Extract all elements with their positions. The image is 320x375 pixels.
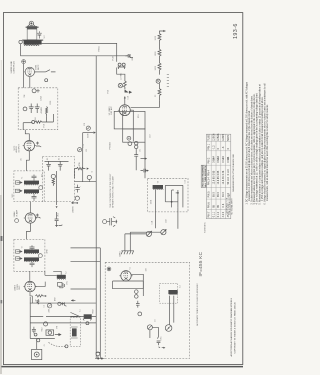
T2 cap top bbox=[30, 245, 35, 249]
svg-text:PLUG: PLUG bbox=[112, 55, 114, 61]
svg-text:0 46: 0 46 bbox=[222, 170, 225, 175]
AVC coupling caps bbox=[55, 212, 59, 224]
converter tube V1 12BE6 bbox=[23, 281, 36, 291]
svg-text:470K: 470K bbox=[79, 161, 81, 166]
wire heater string top with arrow bbox=[160, 31, 166, 34]
dashed link to ground bbox=[49, 343, 66, 347]
series cap marks bbox=[157, 341, 161, 345]
svg-text:IF AMP: IF AMP bbox=[15, 209, 18, 216]
svg-text:4. Line voltage maintained at: 4. Line voltage maintained at 117 volts … bbox=[256, 92, 259, 204]
svg-text:J1: J1 bbox=[44, 345, 46, 347]
loop antenna trimmer block bbox=[84, 315, 91, 319]
resistor R3 vertical bbox=[37, 299, 39, 304]
wire speaker return bbox=[21, 44, 126, 56]
wire 12AT6 plate up bbox=[124, 96, 126, 104]
chassis arrow upper bbox=[141, 157, 148, 159]
svg-text:measured in 1,000 ohms per vol: measured in 1,000 ohms per volt and take… bbox=[248, 110, 251, 201]
alignment star symbol bbox=[107, 267, 111, 271]
divider mesh box upper bbox=[114, 111, 145, 128]
B- bus vertical main bbox=[95, 56, 97, 359]
svg-text:C13: C13 bbox=[185, 180, 187, 183]
arrow chassis left low bbox=[71, 299, 75, 301]
svg-text:L3: L3 bbox=[179, 285, 181, 287]
svg-text:R8: R8 bbox=[84, 123, 86, 125]
wire jack feed bbox=[36, 339, 38, 350]
alternate osc coil dashed box bbox=[160, 283, 178, 303]
svg-text:C19: C19 bbox=[149, 135, 151, 138]
output transformer T3 winding (laminated core) bbox=[24, 40, 42, 44]
grid terminal circle bbox=[15, 219, 19, 223]
resistor R15 vertical bbox=[52, 179, 54, 186]
svg-text:46 0: 46 0 bbox=[222, 192, 225, 197]
wire T2 to converter bbox=[29, 271, 31, 281]
interlock connector M1 bbox=[125, 54, 133, 58]
T2 secondary winding bbox=[24, 257, 39, 262]
svg-text:PIN 1: PIN 1 bbox=[208, 143, 211, 150]
resistor R18 horizontal bbox=[35, 121, 53, 123]
svg-text:V.C.: V.C. bbox=[44, 34, 46, 38]
AVC bus vertical secondary bbox=[99, 248, 101, 359]
resistor R9 horizontal bbox=[75, 167, 86, 178]
svg-text:C26A: C26A bbox=[40, 96, 43, 101]
svg-text:193-6: 193-6 bbox=[233, 23, 239, 39]
svg-text:.05: .05 bbox=[47, 158, 49, 161]
jack terminal circles bbox=[127, 136, 131, 140]
svg-text:6. Voltage should be measured: 6. Voltage should be measured, no signal… bbox=[264, 83, 267, 204]
svg-text:C18: C18 bbox=[128, 96, 130, 99]
output transformer T3 frame bbox=[27, 26, 37, 39]
coupling cap C15 bbox=[78, 148, 82, 152]
dial lamp tick marks bbox=[167, 75, 169, 87]
wire mesh to detector box bbox=[144, 142, 146, 178]
svg-text:20MFD: 20MFD bbox=[72, 206, 74, 213]
2nd IF transformer T2 dashed box bbox=[14, 239, 45, 271]
AVC line lower bbox=[30, 322, 96, 324]
trimmer link wires bbox=[150, 327, 159, 338]
svg-text:.05: .05 bbox=[21, 158, 23, 161]
svg-text:12AT6: 12AT6 bbox=[222, 133, 225, 141]
resistor R22 bbox=[158, 49, 161, 63]
T2 primary winding bbox=[24, 249, 39, 254]
svg-text:50 110: 50 110 bbox=[227, 177, 230, 185]
wire loop below tube bbox=[113, 281, 144, 289]
tuning gang C1B variable capacitor bbox=[125, 230, 166, 235]
oscillator coil L2 winding bbox=[57, 275, 66, 280]
antenna coupling symbols bbox=[58, 302, 61, 305]
svg-text:455: 455 bbox=[42, 174, 44, 177]
converter grid resistor R2 bbox=[35, 295, 44, 297]
svg-text:-1.2: -1.2 bbox=[212, 145, 215, 150]
wire converter cathode bbox=[30, 292, 32, 303]
electrolytic C26A bbox=[29, 104, 34, 114]
wire to heater string bbox=[125, 90, 131, 94]
svg-text:47: 47 bbox=[35, 299, 37, 301]
volume control branch vertical bbox=[82, 133, 84, 182]
wires to chassis mount comb bbox=[125, 232, 130, 251]
svg-text:R18: R18 bbox=[44, 124, 46, 127]
svg-text:TUBE: TUBE bbox=[208, 134, 211, 141]
gang link wires bbox=[125, 232, 161, 234]
AVC feed wire bbox=[74, 181, 96, 183]
svg-text:A MOTOROLA CHASSIS SCHEMATI: A MOTOROLA CHASSIS SCHEMATIC DIAGRAM MOD… bbox=[230, 297, 233, 356]
svg-text:SEC: SEC bbox=[12, 193, 14, 198]
svg-text:150: 150 bbox=[35, 117, 37, 120]
svg-text:C3: C3 bbox=[154, 320, 156, 322]
AVC bus vertical bbox=[56, 171, 58, 205]
audio output tube V4 50C5 bbox=[23, 141, 36, 151]
svg-text:CORD PLUG: CORD PLUG bbox=[13, 61, 15, 74]
screen bypass cap C12 bbox=[36, 214, 41, 219]
svg-text:470K: 470K bbox=[46, 248, 48, 253]
volume control R8 bbox=[86, 126, 90, 130]
padder trimmer circle bbox=[47, 304, 51, 308]
tuning gang C1A variable capacitor bbox=[146, 231, 151, 236]
T1 trimmer top bbox=[16, 181, 23, 184]
T2 trimmer bottom bbox=[16, 257, 23, 260]
svg-text:0 .6: 0 .6 bbox=[222, 203, 225, 208]
svg-text:PIN 5: PIN 5 bbox=[208, 191, 211, 198]
svg-text:PIN 3 4: PIN 3 4 bbox=[208, 177, 211, 186]
svg-text:85 0: 85 0 bbox=[217, 192, 220, 197]
page left edge shadow bbox=[0, 195, 2, 374]
svg-text:117VAC: 117VAC bbox=[120, 72, 123, 80]
tube voltage table bbox=[206, 134, 231, 219]
alternate trimmer CT2 bbox=[165, 325, 172, 332]
T2 trimmer top bbox=[16, 250, 23, 253]
wire filter bottom drop bbox=[22, 123, 24, 130]
electrolytic cap C16 with polarity bbox=[75, 185, 79, 193]
svg-text:C2: C2 bbox=[44, 305, 46, 307]
detector transformer dashed box bbox=[148, 178, 188, 212]
capacitor C22 bbox=[58, 161, 63, 170]
phono switch box bbox=[46, 330, 54, 335]
wire rectifier cathode bbox=[29, 77, 31, 88]
svg-text:12.6 46: 12.6 46 bbox=[222, 176, 225, 185]
wire bottom bbox=[30, 338, 55, 340]
junction dots on dashed bus bbox=[97, 358, 99, 360]
T1 cap top bbox=[32, 175, 37, 181]
chassis mount comb feet bbox=[121, 251, 134, 254]
wire volume tap bbox=[83, 132, 94, 134]
AC plug P1 bbox=[118, 63, 121, 66]
heater wire row 1 bbox=[71, 247, 101, 249]
coupling cap with arrow bbox=[141, 169, 149, 173]
B+ decoupling dashed box bbox=[42, 157, 74, 202]
svg-text:L1: L1 bbox=[80, 309, 82, 311]
wire rectifier plate bbox=[35, 71, 46, 73]
svg-text:PIN 4: PIN 4 bbox=[208, 169, 211, 176]
phono jack J1 box bbox=[32, 349, 42, 359]
svg-text:3. Measured values are from s: 3. Measured values are from socket pin t… bbox=[253, 93, 256, 204]
svg-text:RECT.: RECT. bbox=[38, 64, 40, 70]
arrow to chassis left bbox=[72, 202, 77, 204]
svg-text:0 85: 0 85 bbox=[212, 170, 215, 175]
svg-text:12BE6: 12BE6 bbox=[212, 133, 215, 141]
svg-text:APPEARS IN PHOTOFACT FOLDER: APPEARS IN PHOTOFACT FOLDER bbox=[112, 176, 115, 208]
svg-text:PIN 6: PIN 6 bbox=[208, 202, 211, 209]
IF amplifier tube V2 12BA6 bbox=[24, 213, 37, 223]
scan speck marks on left edge bbox=[0, 236, 2, 241]
loop antenna lead diagonals bbox=[70, 312, 80, 316]
svg-text:measurements, with an isolatio: measurements, with an isolation transfor… bbox=[266, 104, 269, 201]
polarity cap bbox=[136, 301, 140, 308]
table cell digits bbox=[208, 133, 230, 218]
pilot lamp I2 bbox=[156, 79, 160, 83]
oscillator grid line bbox=[30, 315, 96, 317]
capacitor C30 bbox=[37, 32, 42, 34]
pilot terminal circle bbox=[23, 107, 27, 111]
loop antenna dashed box bbox=[70, 317, 80, 346]
resistor R24 bbox=[158, 83, 161, 100]
resistor R21 bbox=[158, 34, 161, 50]
T1 terminal circle bbox=[39, 186, 43, 190]
cathode resistor R17 bbox=[36, 142, 41, 147]
alternate trimmer CT1 bbox=[147, 325, 152, 330]
tone network cluster bbox=[103, 217, 118, 227]
capacitor C4 bbox=[32, 327, 36, 334]
scattered component value labels bbox=[12, 46, 186, 347]
svg-text:T1: T1 bbox=[21, 177, 23, 179]
svg-text:NO SIGNAL INPUT: NO SIGNAL INPUT bbox=[230, 197, 233, 214]
terminal circle B bbox=[51, 174, 55, 178]
svg-text:PIN 2: PIN 2 bbox=[208, 157, 211, 164]
page bottom edge line bbox=[1, 366, 244, 368]
electrolytic pair bbox=[135, 290, 139, 294]
grid terminal circle bbox=[87, 175, 91, 179]
wire left drop bbox=[29, 297, 31, 339]
svg-text:40MFD: 40MFD bbox=[41, 106, 43, 113]
wire 12AT6 to divider mesh bbox=[130, 110, 133, 141]
loop antenna winding L1 bbox=[71, 327, 78, 338]
T2 terminal circle bbox=[39, 254, 43, 258]
1st IF transformer T1 dashed box bbox=[14, 171, 44, 202]
filter dashed enclosure bbox=[18, 88, 58, 130]
oscillator section entry terminal bbox=[96, 352, 100, 356]
svg-text:.01: .01 bbox=[140, 149, 142, 152]
bus wire in decoupling box bbox=[45, 160, 69, 162]
osc coil padder box bbox=[58, 282, 62, 286]
T2 cap bottom bbox=[30, 262, 35, 267]
svg-text:PHONO: PHONO bbox=[110, 142, 112, 150]
electrolytic pair C19 bbox=[135, 142, 138, 145]
svg-text:± 15% in voltage and resistanc: ± 15% in voltage and resistance readings… bbox=[261, 96, 264, 201]
svg-text:OSC.: OSC. bbox=[19, 285, 21, 290]
T3 secondary coil bumps bbox=[25, 45, 39, 46]
svg-text:1. DC Voltage measurements ar: 1. DC Voltage measurements are at 20,000… bbox=[245, 81, 248, 204]
AVC return wire bbox=[30, 302, 96, 304]
speaker SP1 cone symbol bbox=[29, 21, 33, 25]
svg-text:SW2: SW2 bbox=[42, 327, 44, 331]
svg-text:12.6 85: 12.6 85 bbox=[212, 176, 215, 185]
svg-text:85 0: 85 0 bbox=[212, 192, 215, 197]
svg-text:SW: SW bbox=[24, 94, 26, 97]
alternate osc coil winding bbox=[168, 290, 177, 295]
wire AC line drop bbox=[117, 68, 125, 82]
svg-text:PIN 7: PIN 7 bbox=[208, 211, 211, 218]
wire 50C5 plate to box bbox=[25, 130, 29, 141]
svg-text:R10: R10 bbox=[138, 115, 140, 118]
resistor R23 bbox=[158, 63, 161, 74]
switch arm SW1 bbox=[46, 70, 56, 72]
svg-text:OUTPUT: OUTPUT bbox=[19, 144, 21, 153]
svg-text:500K: 500K bbox=[88, 133, 90, 138]
divider mesh box lower bbox=[123, 129, 145, 142]
detector bridge wires bbox=[165, 185, 183, 207]
wire heater string bottom bbox=[131, 100, 160, 107]
table header cell (dense) bbox=[201, 165, 207, 187]
svg-text:OSC: OSC bbox=[160, 336, 162, 341]
filter choke wire bbox=[23, 122, 32, 124]
dial lamp I1 bbox=[118, 83, 122, 87]
title footer lines bbox=[230, 297, 236, 356]
wire converter to osc coil bbox=[35, 271, 61, 286]
heater wire row 2 bbox=[71, 260, 101, 262]
svg-text:COPYRIGHT W. RIDER & SONS CO.: COPYRIGHT W. RIDER & SONS CO. PAGE 1956-… bbox=[233, 302, 236, 354]
svg-text:IF=455 KC: IF=455 KC bbox=[198, 251, 203, 276]
svg-text:T4: T4 bbox=[157, 181, 159, 183]
capacitor C21 bbox=[46, 161, 51, 170]
wire T1 secondary to IF tube bbox=[29, 202, 31, 213]
svg-text:12BA6: 12BA6 bbox=[217, 133, 220, 141]
svg-text:100K: 100K bbox=[150, 199, 152, 204]
exit wires below box bbox=[155, 190, 178, 229]
svg-text:0 1.1: 0 1.1 bbox=[212, 211, 215, 217]
oscillator alternate dashed box bbox=[105, 262, 189, 358]
notes paragraph (rotated, below schematic in landscape) bbox=[245, 81, 269, 204]
filter resistor R19 (vertical) bbox=[46, 107, 48, 117]
svg-text:12.6 85: 12.6 85 bbox=[217, 176, 220, 185]
svg-text:MEASURED WITH VTVM CHASSIS GND: MEASURED WITH VTVM CHASSIS GND bbox=[232, 153, 235, 191]
svg-text:5. Nominal tolerance of compo: 5. Nominal tolerance of component values… bbox=[258, 84, 261, 204]
cathode return wire bbox=[71, 288, 97, 290]
svg-text:0 85: 0 85 bbox=[217, 170, 220, 175]
T1 cap bottom bbox=[32, 194, 37, 201]
electrolytic C26B bbox=[35, 104, 40, 114]
svg-text:GANG: GANG bbox=[118, 251, 121, 257]
rectifier tube V5 35W4 bbox=[24, 67, 36, 76]
svg-text:ALL TUBE SOCKETS: ALL TUBE SOCKETS bbox=[204, 165, 207, 186]
fuse terminal bbox=[22, 60, 26, 64]
T1 secondary winding bbox=[24, 189, 39, 194]
svg-text:0 110: 0 110 bbox=[227, 169, 230, 175]
svg-text:DET AVC: DET AVC bbox=[110, 106, 113, 115]
svg-text:FIELD: FIELD bbox=[98, 46, 100, 52]
wire IF tube to 2nd IF bbox=[27, 223, 31, 239]
on-off switch circle bbox=[32, 89, 36, 93]
wire alternate plate bbox=[131, 274, 143, 296]
svg-text:V1: V1 bbox=[130, 267, 132, 269]
svg-text:SCHEMATIC: SCHEMATIC bbox=[204, 221, 207, 233]
1st audio tube V3 12AT6 bbox=[118, 105, 132, 116]
svg-text:AVC: AVC bbox=[56, 212, 59, 216]
detector coil winding bbox=[153, 185, 164, 190]
wire 50C5 grid down bbox=[26, 151, 29, 171]
T1 primary winding bbox=[24, 181, 39, 186]
terminal circle bbox=[75, 196, 79, 200]
border frame of schematic bbox=[3, 13, 242, 365]
svg-text:1200: 1200 bbox=[50, 101, 52, 105]
resistor R20 line dropping bbox=[124, 81, 127, 89]
svg-text:100: 100 bbox=[145, 268, 147, 271]
svg-text:C15: C15 bbox=[83, 144, 85, 147]
svg-text:4.2 0: 4.2 0 bbox=[222, 211, 225, 217]
svg-text:0 1.2: 0 1.2 bbox=[217, 211, 220, 217]
T1 trimmer bottom bbox=[16, 189, 23, 192]
alternate converter tube bbox=[119, 271, 132, 281]
alternate osc coil leads bbox=[169, 296, 173, 325]
svg-text:TRIM: TRIM bbox=[92, 309, 94, 314]
svg-text:2. Socket measurements are sh: 2. Socket measurements are shown on bott… bbox=[251, 95, 254, 205]
svg-text:.02: .02 bbox=[58, 158, 60, 161]
svg-text:R20: R20 bbox=[108, 90, 110, 93]
svg-text:L2: L2 bbox=[66, 271, 68, 273]
svg-text:OSC: OSC bbox=[66, 280, 68, 285]
table footnotes bbox=[226, 193, 234, 215]
svg-text:T2: T2 bbox=[21, 246, 23, 248]
svg-text:50C5: 50C5 bbox=[227, 135, 230, 141]
svg-text:ALTERNATE TUNER & OSCILLATO: ALTERNATE TUNER & OSCILLATOR ASSEMBLY bbox=[196, 283, 199, 326]
wire plate B+ bbox=[42, 43, 117, 61]
cap C20 bbox=[134, 149, 138, 171]
wire line cord to box bbox=[23, 64, 25, 88]
voice-coil terminal bbox=[19, 40, 22, 43]
